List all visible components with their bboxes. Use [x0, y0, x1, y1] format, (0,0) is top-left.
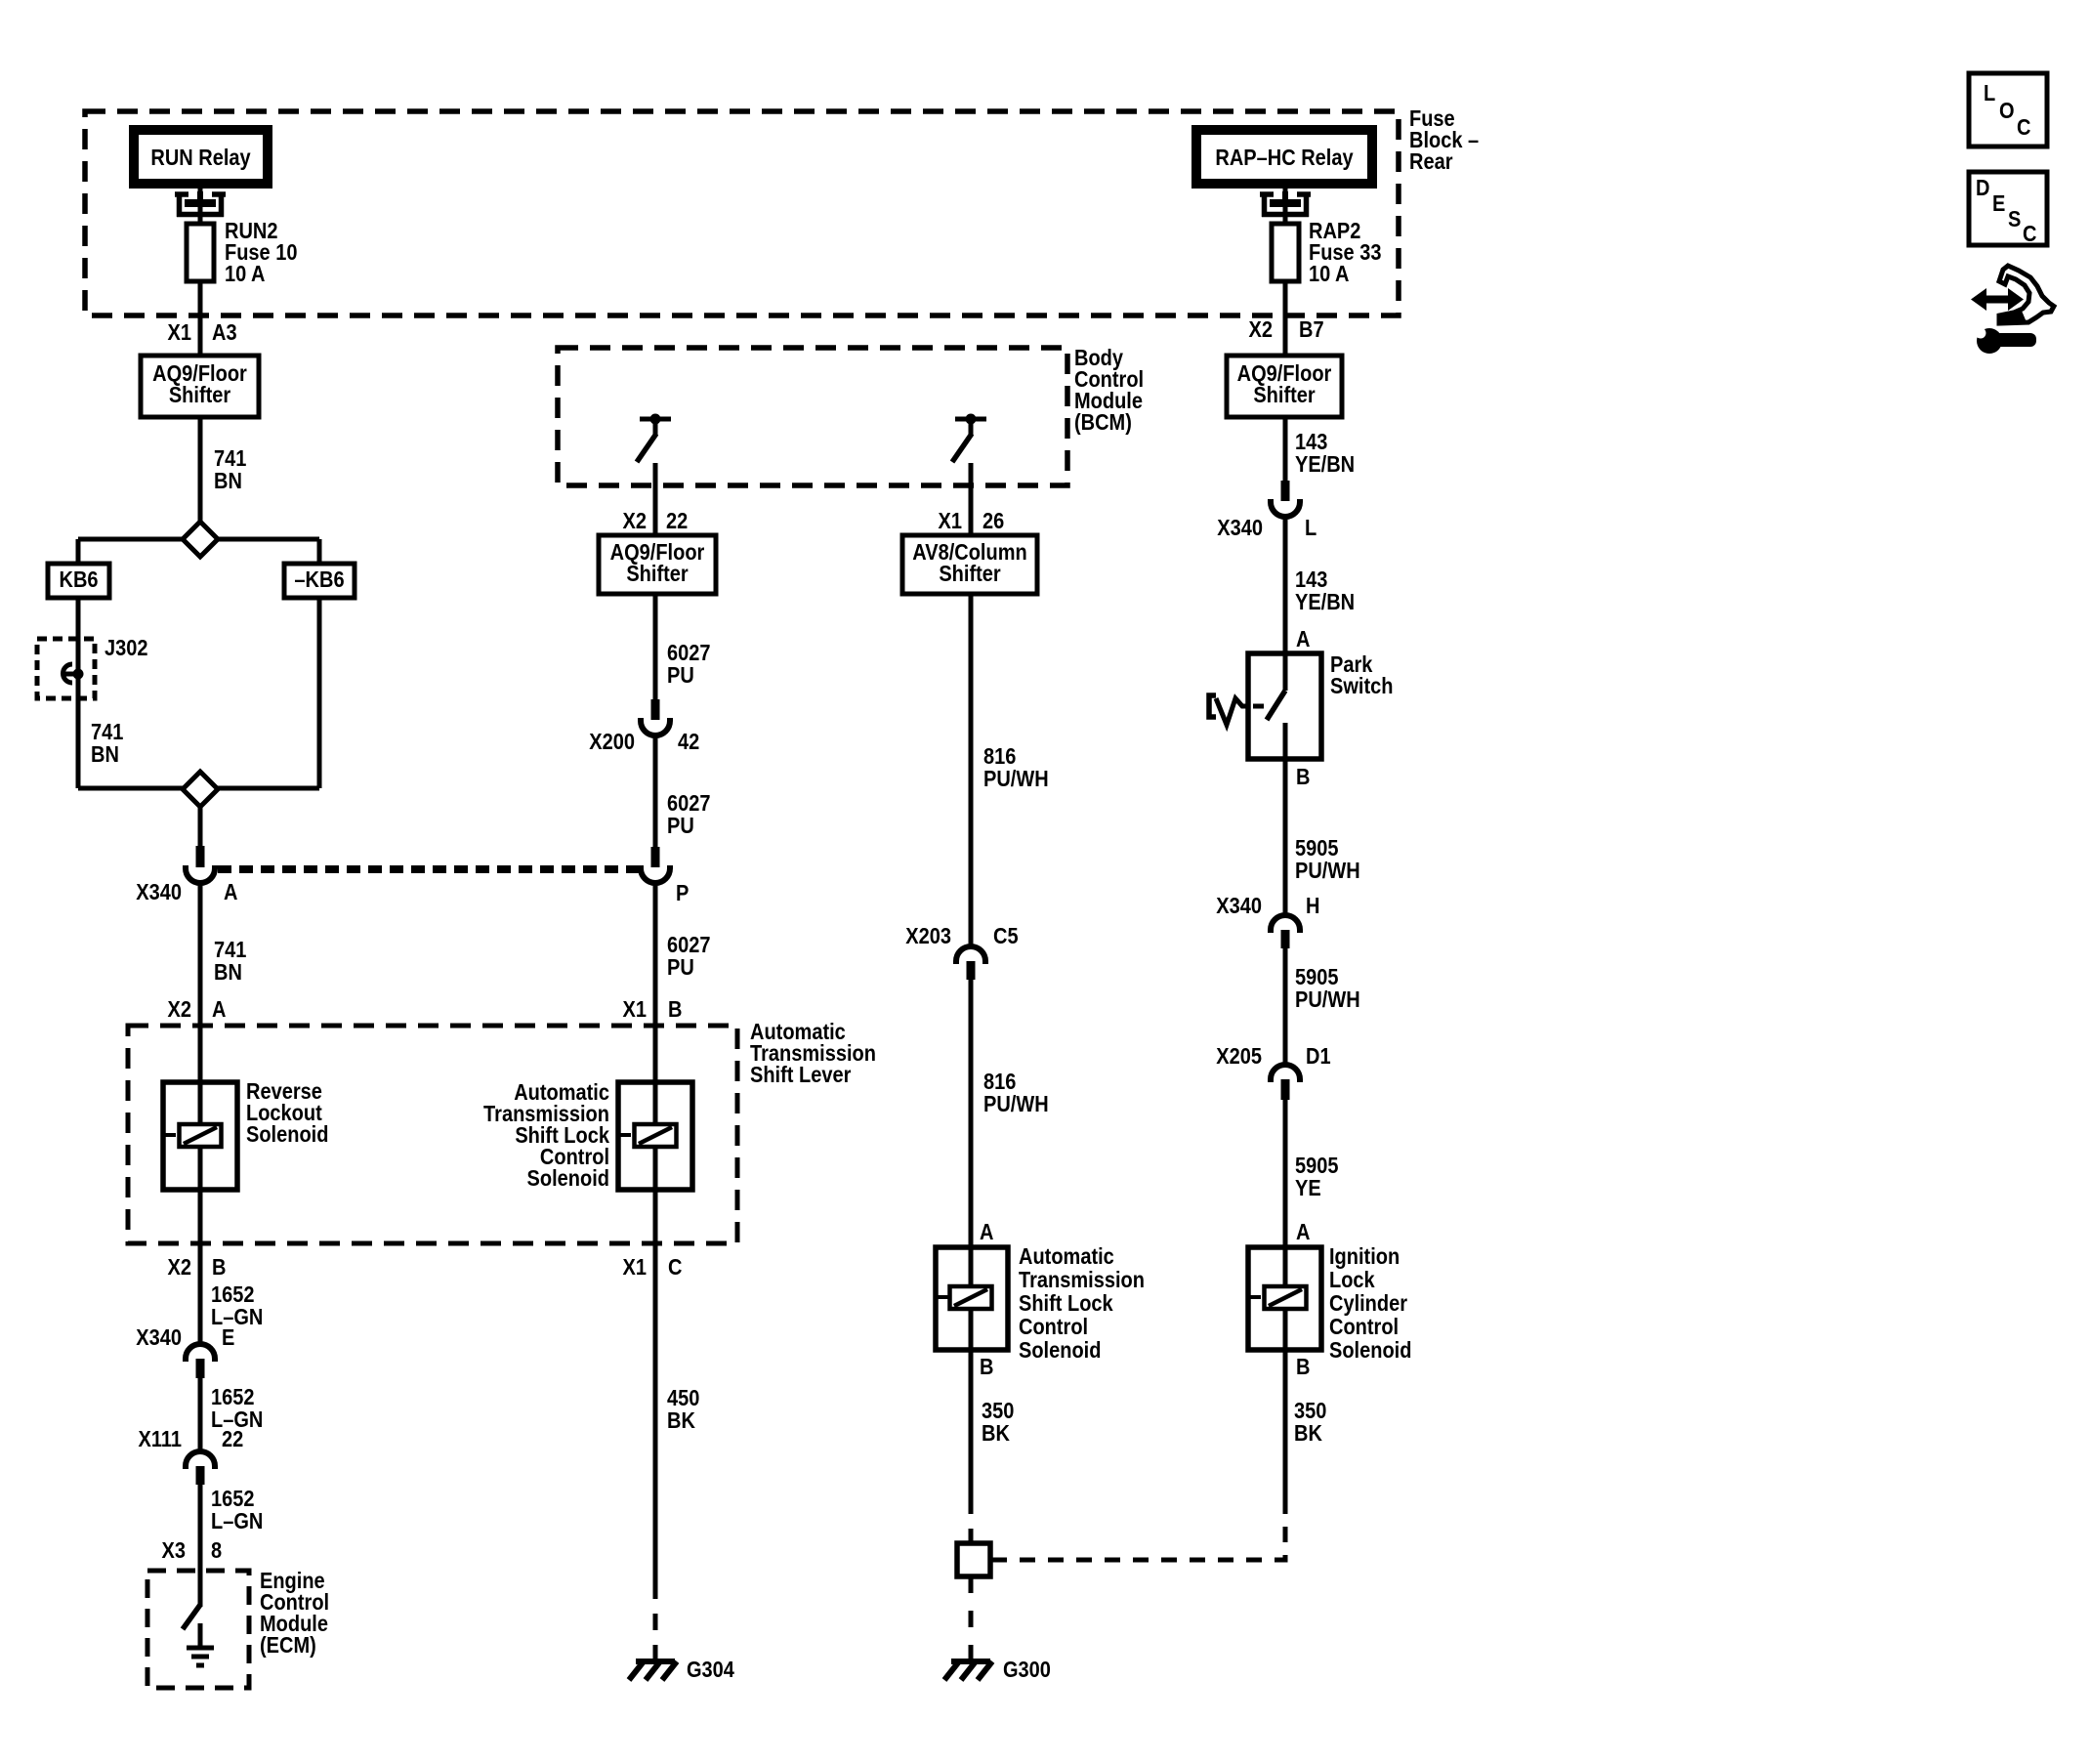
- svg-text:Automatic: Automatic: [1019, 1243, 1114, 1270]
- svg-text:A: A: [224, 879, 237, 905]
- wire loop bottom: [78, 786, 319, 791]
- relay contact RUN Relay: [175, 191, 226, 217]
- wire RAP-HC relay to fuse RAP2: [1283, 184, 1288, 224]
- svg-text:A: A: [1296, 1219, 1310, 1245]
- wire through solenoid box (column): [969, 1247, 974, 1350]
- svg-text:YE/BN: YE/BN: [1295, 451, 1355, 478]
- wire fuse RAP2 to AQ9/Floor Shifter (right): [1283, 281, 1288, 356]
- connector P pin: [651, 847, 660, 867]
- wire RUN relay to fuse RUN2: [198, 184, 203, 224]
- svg-text:Shift Lever: Shift Lever: [750, 1062, 852, 1088]
- svg-text:PU: PU: [667, 954, 694, 981]
- dashed lead splice box to ground G300: [969, 1576, 974, 1661]
- wire AQ9/Floor Shifter to junction diamond: [198, 417, 203, 522]
- svg-text:O: O: [1999, 98, 2015, 124]
- svg-text:Lock: Lock: [1329, 1267, 1375, 1293]
- wire loop left branch: [76, 539, 81, 788]
- wire connector X340 H to X205: [1283, 948, 1288, 1065]
- svg-text:X340: X340: [1216, 893, 1262, 919]
- svg-text:BK: BK: [667, 1407, 695, 1434]
- svg-text:10 A: 10 A: [225, 261, 266, 287]
- connector X200 pin: [651, 699, 660, 720]
- relay contact RAP-HC Relay: [1260, 191, 1311, 217]
- wire connector P to shift lock solenoid: [653, 883, 658, 1082]
- connector X340 L cup: [1271, 499, 1300, 517]
- svg-text:E: E: [222, 1324, 234, 1351]
- svg-text:H: H: [1306, 893, 1319, 919]
- svg-text:BN: BN: [214, 468, 242, 494]
- relay box RAP-HC Relay: [1196, 130, 1372, 184]
- automatic transmission shift lever dashed outline: [128, 1026, 737, 1243]
- body control module dashed outline: [558, 348, 1067, 485]
- svg-text:L–GN: L–GN: [211, 1304, 263, 1330]
- svg-text:X2: X2: [168, 996, 191, 1023]
- wire connector X340 L to Park Switch: [1283, 517, 1288, 653]
- wire ignition solenoid B down: [1283, 1350, 1288, 1498]
- svg-text:Solenoid: Solenoid: [1329, 1337, 1411, 1364]
- wire connector X340 A to Reverse Lockout Solenoid: [198, 883, 203, 1082]
- ground G300: [944, 1661, 992, 1680]
- svg-text:PU/WH: PU/WH: [983, 766, 1049, 792]
- fuse RAP2 Fuse 33: [1272, 224, 1299, 281]
- legend icon wrench: [1967, 325, 2036, 354]
- svg-text:J302: J302: [104, 635, 148, 661]
- dashed lead to splice box: [969, 1498, 974, 1543]
- svg-text:B: B: [1296, 764, 1310, 790]
- svg-text:B7: B7: [1299, 316, 1324, 343]
- switch BCM output (column shifter): [952, 414, 986, 463]
- svg-text:Transmission: Transmission: [1019, 1267, 1145, 1293]
- wire connector X111 to ECM: [198, 1485, 203, 1607]
- connector X205 D1 dome: [1271, 1065, 1300, 1082]
- wire connector X203 to shift lock solenoid (column): [969, 980, 974, 1247]
- svg-text:Solenoid: Solenoid: [1019, 1337, 1101, 1364]
- svg-text:G304: G304: [687, 1657, 734, 1683]
- svg-text:L: L: [1984, 80, 1995, 106]
- svg-text:Switch: Switch: [1330, 673, 1393, 699]
- svg-text:Ignition: Ignition: [1329, 1243, 1400, 1270]
- svg-text:D1: D1: [1306, 1043, 1331, 1070]
- svg-text:X205: X205: [1216, 1043, 1262, 1070]
- svg-text:BN: BN: [214, 959, 242, 986]
- connector X340 L pin: [1281, 481, 1290, 501]
- svg-text:BK: BK: [1294, 1420, 1322, 1447]
- svg-text:A: A: [980, 1219, 993, 1245]
- connector X200 cup: [641, 718, 670, 735]
- connector X340 A pin: [196, 846, 205, 867]
- svg-text:X340: X340: [136, 1324, 182, 1351]
- Park Switch blade: [1267, 691, 1285, 720]
- ground G304: [629, 1661, 677, 1680]
- svg-text:PU: PU: [667, 813, 694, 839]
- svg-text:Solenoid: Solenoid: [527, 1165, 609, 1192]
- wire loop right branch: [317, 539, 322, 788]
- svg-text:PU: PU: [667, 662, 694, 689]
- svg-text:X1: X1: [939, 508, 962, 534]
- svg-text:L–GN: L–GN: [211, 1508, 263, 1534]
- svg-text:B: B: [212, 1254, 226, 1281]
- solenoid Ignition Lock Cylinder Control: [1248, 1247, 1321, 1350]
- fuse block rear dashed outline: [85, 111, 1399, 315]
- svg-text:Shifter: Shifter: [169, 382, 231, 408]
- svg-text:X200: X200: [589, 729, 635, 755]
- wire AV8 to connector X203: [969, 594, 974, 946]
- connector X340 A cup: [186, 865, 215, 883]
- connector box AQ9/Floor Shifter (centre): [599, 535, 716, 594]
- svg-text:Rear: Rear: [1409, 148, 1453, 175]
- svg-text:RAP–HC Relay: RAP–HC Relay: [1215, 145, 1353, 171]
- wire fuse RUN2 to AQ9/Floor Shifter: [198, 281, 203, 356]
- svg-text:S: S: [2008, 206, 2021, 232]
- svg-text:Shifter: Shifter: [626, 561, 689, 587]
- svg-text:A: A: [1296, 626, 1310, 652]
- terminal box -KB6: [284, 564, 355, 598]
- svg-text:BN: BN: [91, 741, 119, 768]
- wire AQ9 to connector X340 L: [1283, 417, 1288, 481]
- connector X340 E dome: [186, 1344, 215, 1362]
- svg-text:P: P: [676, 880, 689, 906]
- svg-text:KB6: KB6: [59, 567, 98, 593]
- svg-text:Control: Control: [1019, 1314, 1088, 1340]
- wire AQ9 to connector X200: [653, 594, 658, 700]
- svg-text:10 A: 10 A: [1309, 261, 1350, 287]
- splice J302 dashed outline: [37, 639, 95, 698]
- legend icon direction arrow with outline: [1971, 266, 2054, 323]
- connector X203 dome: [956, 946, 985, 964]
- legend icon LOC: [1969, 73, 2047, 147]
- wire solenoid to ground lead: [653, 1190, 658, 1582]
- svg-text:(ECM): (ECM): [260, 1632, 316, 1659]
- wire BCM switch to AQ9/Floor Shifter (centre): [653, 463, 658, 535]
- svg-text:22: 22: [666, 508, 688, 534]
- wire through shift lock solenoid box: [653, 1082, 658, 1190]
- dashed lead ignition solenoid to splice (L shape): [992, 1498, 1285, 1560]
- wire inside Park Switch upper: [1283, 653, 1288, 691]
- junction diamond lower: [183, 772, 218, 807]
- svg-text:X3: X3: [162, 1537, 186, 1564]
- connector box AQ9/Floor Shifter (left): [141, 356, 259, 417]
- svg-text:C: C: [2023, 221, 2036, 247]
- svg-text:B: B: [1296, 1354, 1310, 1380]
- svg-text:X203: X203: [905, 923, 951, 949]
- svg-text:X340: X340: [1217, 515, 1263, 541]
- wire solenoid to connector X340 E: [198, 1190, 203, 1344]
- svg-text:A3: A3: [212, 319, 237, 346]
- connector P cup: [641, 865, 670, 883]
- ECM internal ground: [187, 1623, 214, 1665]
- dashed ground lead G304: [653, 1582, 658, 1661]
- terminal box KB6: [48, 564, 109, 598]
- svg-text:22: 22: [222, 1426, 243, 1452]
- svg-text:C5: C5: [993, 923, 1019, 949]
- svg-text:PU/WH: PU/WH: [983, 1091, 1049, 1117]
- svg-text:YE/BN: YE/BN: [1295, 589, 1355, 615]
- svg-text:Shifter: Shifter: [1253, 382, 1316, 408]
- junction diamond upper: [183, 522, 218, 557]
- connector X340 H dome: [1271, 915, 1300, 933]
- switch box Park Switch: [1248, 653, 1321, 759]
- svg-text:C: C: [668, 1254, 682, 1281]
- svg-text:G300: G300: [1003, 1657, 1051, 1683]
- wire connector X340 E to X111: [198, 1378, 203, 1451]
- relay box RUN Relay: [134, 130, 268, 184]
- solenoid A/T Shift Lock Control (lever): [618, 1082, 692, 1190]
- connector X111 dome: [186, 1451, 215, 1469]
- solenoid Reverse Lockout: [163, 1082, 237, 1190]
- svg-text:PU/WH: PU/WH: [1295, 858, 1360, 884]
- svg-text:PU/WH: PU/WH: [1295, 987, 1360, 1013]
- svg-text:RUN Relay: RUN Relay: [150, 145, 250, 171]
- svg-text:E: E: [1992, 190, 2005, 217]
- engine control module dashed outline: [147, 1571, 249, 1688]
- svg-text:Control: Control: [1329, 1314, 1399, 1340]
- svg-text:X111: X111: [138, 1426, 182, 1452]
- svg-text:L: L: [1305, 515, 1317, 541]
- svg-text:BK: BK: [982, 1420, 1010, 1447]
- connector box AQ9/Floor Shifter (right): [1227, 356, 1342, 417]
- svg-text:X1: X1: [623, 996, 647, 1023]
- switch BCM output (floor shifter): [637, 414, 671, 463]
- wire through ignition solenoid box: [1283, 1247, 1288, 1350]
- legend icon DESC: [1969, 172, 2047, 245]
- dotted connector line X340 between A and P: [218, 865, 639, 873]
- wire connector X205 to ignition solenoid: [1283, 1100, 1288, 1247]
- solenoid A/T Shift Lock Control (column): [936, 1247, 1008, 1350]
- svg-text:–KB6: –KB6: [294, 567, 344, 593]
- svg-text:B: B: [668, 996, 682, 1023]
- svg-text:X2: X2: [623, 508, 647, 534]
- svg-text:X2: X2: [168, 1254, 191, 1281]
- svg-text:D: D: [1976, 175, 1989, 201]
- svg-text:8: 8: [211, 1537, 222, 1564]
- fuse RUN2 Fuse 10: [187, 224, 214, 281]
- wire BCM switch to AV8/Column Shifter: [969, 463, 974, 535]
- svg-text:C: C: [2017, 114, 2030, 141]
- svg-text:A: A: [212, 996, 226, 1023]
- splice J302 symbol: [73, 669, 84, 680]
- wire solenoid B to dashed lead: [969, 1350, 974, 1498]
- svg-text:Shift Lock: Shift Lock: [1019, 1290, 1113, 1317]
- svg-text:B: B: [980, 1354, 993, 1380]
- svg-text:Shifter: Shifter: [939, 561, 1001, 587]
- park switch actuator: [1209, 695, 1216, 717]
- wire Park Switch B to connector X340 H: [1283, 759, 1288, 915]
- svg-text:(BCM): (BCM): [1074, 409, 1132, 436]
- splice box S-connector: [957, 1543, 990, 1576]
- wire connector X200 to connector P: [653, 735, 658, 848]
- svg-text:YE: YE: [1295, 1175, 1321, 1201]
- svg-text:26: 26: [982, 508, 1004, 534]
- wire diamond to connector X340 A: [198, 807, 203, 846]
- svg-text:X340: X340: [136, 879, 182, 905]
- wire Park Switch lower contact: [1283, 723, 1288, 759]
- wire through Reverse Lockout Solenooid box: [198, 1082, 203, 1190]
- wire loop top: [78, 537, 319, 542]
- svg-text:Cylinder: Cylinder: [1329, 1290, 1408, 1317]
- svg-text:X1: X1: [623, 1254, 647, 1281]
- svg-text:42: 42: [678, 729, 699, 755]
- svg-text:Solenoid: Solenoid: [246, 1121, 328, 1148]
- svg-text:X2: X2: [1249, 316, 1273, 343]
- svg-text:X1: X1: [168, 319, 191, 346]
- ECM switch blade: [183, 1605, 200, 1629]
- connector box AV8/Column Shifter: [902, 535, 1037, 594]
